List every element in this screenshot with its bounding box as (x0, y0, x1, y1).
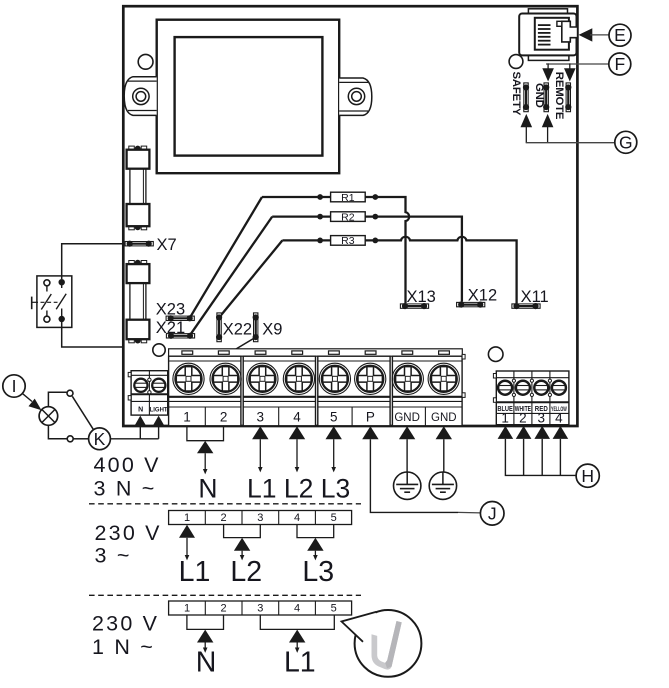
board outline (123, 6, 577, 426)
terminal block top rail (169, 349, 463, 356)
svg-text:4: 4 (293, 409, 301, 424)
svg-text:GND: GND (533, 83, 545, 108)
callout K circle (89, 428, 111, 450)
arrow I to lamp (23, 394, 42, 411)
svg-text:X9: X9 (262, 321, 282, 339)
svg-text:3: 3 (257, 603, 263, 615)
wire X23 to R1 (190, 197, 263, 318)
mounting hole top-right (509, 55, 523, 69)
mounting hole bottom-right (488, 347, 503, 362)
svg-text:X21: X21 (156, 319, 185, 337)
wire R3 to X11 with hops (365, 237, 516, 304)
svg-text:N: N (196, 647, 217, 679)
wire X7 to external switch (62, 244, 125, 282)
terminal screw 2 (210, 363, 241, 394)
lamp switch bottom contact (67, 436, 73, 442)
callout F circle (609, 53, 631, 75)
transformer right mounting tab (339, 78, 372, 115)
230V3 bracket cells 4-5 L3 (297, 525, 334, 561)
svg-text:I: I (12, 376, 17, 396)
230 V 3~ label (95, 521, 162, 568)
callout I circle (3, 375, 25, 397)
arrows into N LIGHT terminals (134, 416, 165, 439)
node on R1 right wire (372, 194, 378, 200)
node on R2 right wire (372, 214, 378, 220)
svg-text:2: 2 (221, 603, 227, 615)
svg-text:L1: L1 (247, 474, 276, 504)
LIGHT terminal screw (152, 379, 165, 392)
transformer left mounting tab (124, 77, 157, 116)
lamp switch top contact (67, 390, 73, 396)
callout F arrow at REMOTE header (564, 68, 576, 81)
svg-text:X23: X23 (156, 301, 185, 319)
wire to R3 (282, 239, 330, 241)
svg-text:J: J (488, 504, 497, 524)
svg-text:230 V: 230 V (92, 612, 159, 636)
N LIGHT labels (138, 407, 168, 414)
wire terminal block to X9 (236, 337, 256, 349)
svg-text:1 N ~: 1 N ~ (92, 635, 155, 659)
svg-text:1: 1 (184, 512, 190, 524)
wire lamp to switch contact (48, 392, 67, 406)
terminal block group 1-2 (169, 356, 241, 426)
mounting hole top-left (138, 54, 153, 69)
terminal screw GND2 (428, 363, 459, 394)
230 V 1N~ label (92, 612, 159, 659)
svg-text:L3: L3 (302, 556, 334, 588)
jumper X9 (253, 313, 259, 342)
svg-text:L1: L1 (284, 647, 316, 679)
low voltage terminal block BLUE WHITE RED YELLOW (493, 371, 569, 425)
svg-text:5: 5 (331, 603, 337, 615)
svg-text:1: 1 (183, 409, 191, 424)
svg-text:X22: X22 (223, 321, 252, 339)
callout E circle (609, 24, 631, 46)
wire to R2 (272, 215, 330, 217)
wire R2 to X12 (365, 217, 462, 302)
wire X22 to R3 (219, 240, 282, 317)
terminal block group GND-GND (392, 356, 462, 426)
jumper X7 (125, 241, 153, 247)
230V3 bracket cells 2-3 L2 (224, 525, 261, 561)
wire lamp bottom (48, 425, 67, 439)
svg-text:X13: X13 (407, 288, 436, 306)
terminal screw 5 (319, 363, 350, 394)
node on R3 right wire (372, 238, 378, 244)
transformer outer body (157, 20, 340, 174)
svg-text:GND: GND (431, 412, 457, 424)
svg-text:2: 2 (519, 411, 527, 426)
svg-text:5: 5 (331, 512, 337, 524)
screw RED (534, 381, 548, 395)
resistor R1 (331, 192, 366, 204)
230V 3~ strip (169, 511, 352, 525)
svg-text:H: H (581, 466, 594, 486)
jumper X11 (512, 303, 540, 309)
svg-text:K: K (94, 429, 106, 449)
svg-text:3 N ~: 3 N ~ (94, 476, 157, 500)
400 V 3N~ label (94, 453, 161, 501)
svg-text:F: F (614, 54, 625, 74)
node on R3 left wire (317, 238, 323, 244)
screw YELLOW (552, 381, 566, 395)
callout H circle (576, 464, 599, 487)
REMOTE pin header (565, 83, 571, 112)
400V arrow terminal 4 L2 (289, 426, 305, 472)
node on R1 left wire (317, 194, 323, 200)
terminal block group 3-4 (243, 356, 315, 426)
230V 1N~ strip (169, 601, 352, 615)
400V arrow terminal 3 L1 (252, 426, 268, 472)
svg-text:L3: L3 (321, 474, 350, 504)
wire switch to board (62, 319, 124, 347)
callout G arrow at SAFETY header (521, 114, 533, 127)
resistor R2 (331, 211, 366, 223)
RJ connector jack (519, 9, 577, 61)
terminal screw GND1 (392, 363, 423, 394)
earth symbol 1 (394, 472, 421, 499)
earth symbol 2 (429, 472, 456, 499)
terminal labels 1-5 P GND GND (183, 409, 456, 424)
wire R1 to X13 (365, 197, 409, 303)
node on R2 left wire (317, 214, 323, 220)
wire to R1 (262, 196, 331, 198)
svg-text:R1: R1 (341, 192, 355, 204)
terminal screw 3 (247, 363, 278, 394)
400V row: bracket terminals 1-2 to N (187, 426, 224, 474)
svg-text:2: 2 (221, 512, 227, 524)
svg-text:3: 3 (257, 512, 263, 524)
svg-text:E: E (614, 25, 626, 45)
terminal block group 5-P (318, 356, 390, 426)
fuse F2 (127, 260, 150, 344)
svg-text:1: 1 (184, 603, 190, 615)
svg-text:5: 5 (330, 409, 338, 424)
svg-text:SAFETY: SAFETY (510, 72, 522, 116)
400V arrow terminal 5 L3 (326, 426, 342, 472)
terminal screw P (355, 363, 386, 394)
screw WHITE (516, 381, 530, 395)
svg-text:L2: L2 (284, 474, 313, 504)
svg-text:X11: X11 (521, 288, 549, 306)
jumper X13 (400, 303, 428, 309)
callout F arrow at GND header (542, 68, 554, 81)
svg-text:G: G (619, 132, 633, 152)
terminal block side tabs (462, 354, 465, 397)
transformer inner core (175, 37, 323, 156)
230V1N bracket cells 3-5 L1 (260, 615, 334, 653)
mounting hole bottom-left (153, 344, 165, 356)
dashed separator 2 (89, 594, 361, 596)
speech bubble with logo (342, 610, 422, 677)
callout G leader (526, 127, 615, 143)
svg-text:P: P (366, 409, 375, 424)
jumper X12 (457, 302, 485, 308)
230V3 arrow cell1 L1 (179, 525, 195, 561)
wire X21 to R2 (190, 217, 273, 336)
svg-text:L1: L1 (179, 556, 211, 588)
callout J circle (480, 502, 504, 526)
lamp symbol (39, 407, 58, 426)
svg-text:R3: R3 (341, 235, 355, 247)
arrow terminal P and wire to J (362, 426, 480, 513)
callout H arrows and lines (498, 426, 576, 476)
wire color labels (497, 404, 567, 413)
SAFETY pin header (523, 83, 529, 112)
GND pin header (543, 83, 549, 112)
fuse F1 (127, 146, 150, 231)
svg-text:L2: L2 (230, 556, 262, 588)
svg-text:N: N (198, 474, 217, 504)
svg-text:3: 3 (257, 409, 265, 424)
wire contact to K (73, 438, 89, 440)
resistor R3 (331, 235, 366, 247)
arrow GND2 and earth (436, 426, 452, 472)
svg-text:2: 2 (220, 409, 228, 424)
svg-text:4: 4 (555, 411, 563, 426)
jumper X23 (166, 315, 194, 321)
svg-text:GND: GND (394, 412, 420, 424)
svg-text:LIGHT: LIGHT (150, 408, 168, 414)
low voltage terminal numbers (501, 411, 563, 426)
terminal screw 1 (173, 363, 204, 394)
svg-text:3 ~: 3 ~ (95, 544, 132, 568)
jumper X21 (166, 333, 194, 339)
svg-text:R2: R2 (341, 211, 355, 223)
callout F leader (546, 63, 609, 69)
N terminal screw (134, 379, 147, 392)
terminal screw 4 (283, 363, 314, 394)
230V1N bracket cells 1-2 N (187, 615, 224, 653)
svg-text:230 V: 230 V (95, 521, 162, 545)
svg-text:N: N (138, 407, 143, 414)
callout G arrow at GND header (542, 114, 554, 127)
svg-text:REMOTE: REMOTE (553, 72, 565, 120)
callout E arrow (579, 28, 609, 41)
svg-text:X12: X12 (468, 286, 497, 304)
screw BLUE (498, 381, 512, 395)
svg-text:4: 4 (294, 512, 300, 524)
switch S1 box (32, 276, 72, 328)
dashed separator 1 (89, 503, 361, 505)
svg-text:1: 1 (501, 411, 509, 426)
wire K to N LIGHT (110, 438, 158, 440)
svg-text:X7: X7 (157, 236, 177, 254)
jumper X22 (216, 313, 222, 342)
svg-text:4: 4 (294, 603, 300, 615)
arrow GND1 and earth (399, 426, 415, 472)
svg-text:400 V: 400 V (94, 453, 161, 477)
callout G circle (615, 131, 637, 153)
svg-text:3: 3 (538, 411, 546, 426)
lamp switch blade (72, 396, 93, 429)
N LIGHT terminal block (128, 371, 168, 415)
